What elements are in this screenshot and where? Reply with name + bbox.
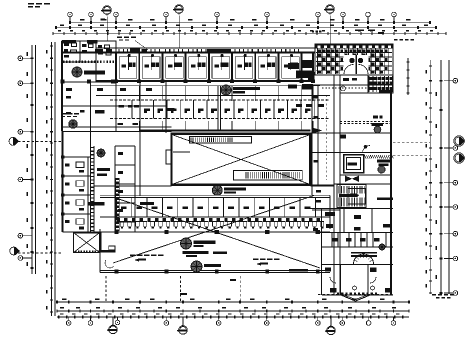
top dim text row1 (80, 19, 85, 21)
tree T7 with label (191, 261, 202, 272)
midleft outer wall (61, 41, 63, 131)
bottom dim text row3 (60, 313, 63, 314)
grid line stub left 2 (18, 252, 62, 254)
left rooms of band (115, 100, 117, 132)
east band join (329, 196, 331, 230)
section symbol S1 top (103, 6, 111, 14)
courtyard stair strip bottom (234, 171, 303, 180)
wc circle 2 (378, 166, 385, 173)
arch with ticks (354, 254, 374, 264)
module columns (114, 79, 118, 83)
right wing bottom interior (353, 286, 357, 290)
title text top-left (28, 3, 34, 5)
chapel bay (341, 295, 370, 301)
bottom grid bubbles (66, 321, 71, 326)
hall columns (114, 230, 118, 234)
bottom dim ticks row3 (58, 316, 59, 319)
right dim ticks B (440, 80, 443, 82)
top dimension line 3 (53, 33, 446, 35)
toilet door arcs (344, 55, 369, 75)
bottom dimension line 1 (57, 301, 409, 303)
cell band top line (110, 99, 330, 101)
left wall junction ticks (61, 155, 65, 158)
wing hatch band (365, 155, 367, 158)
east corridor lines (311, 85, 313, 196)
right dim text A (426, 70, 427, 73)
section symbol S2 bottom (179, 326, 187, 334)
patio X (74, 233, 100, 253)
bottom dimension line 2 (57, 310, 409, 312)
courtyard north thick wall (140, 130, 310, 132)
toilet block outline (315, 44, 393, 75)
top dim ticks row1 (69, 21, 71, 24)
toilet west wall (308, 72, 315, 81)
manhole circle (341, 86, 346, 91)
section symbol S1 bottom (109, 325, 117, 333)
black bar classroom (89, 202, 105, 206)
midleft grid verticals (90, 82, 92, 131)
east corridor dashed (325, 95, 327, 180)
grid verticals below modules (115, 86, 117, 101)
entry block outline (62, 41, 116, 82)
cell band bottom line (110, 118, 330, 120)
canopy bar (207, 49, 231, 52)
tree T4 with label (212, 185, 222, 195)
text area comedor 2 (253, 259, 259, 260)
east corridor thresholds (312, 132, 340, 134)
bottom dim ticks row1 (56, 301, 58, 304)
right dim line C (448, 60, 450, 294)
right wing lower marks (325, 212, 335, 216)
section symbol right 2 (455, 154, 463, 162)
courtyard inner line (173, 151, 190, 153)
right dim ticks A (429, 65, 432, 66)
section symbol left 1 (9, 137, 17, 145)
hall bottom wall (100, 269, 330, 271)
right wing outer wall (390, 93, 392, 295)
wing canopy dashed (318, 294, 393, 296)
grid line stub right 2 (393, 155, 430, 157)
left wing top hall (62, 156, 90, 158)
hall north line (100, 194, 330, 196)
right dim line A (430, 60, 432, 294)
room mark (379, 90, 392, 93)
grid stub bottom 3 (239, 276, 241, 302)
toilet block stalls (316, 45, 393, 49)
courtyard walls (172, 134, 311, 185)
module band main wall (62, 52, 315, 54)
dotted walk line (322, 87, 377, 89)
cubicle band bottom (100, 216, 330, 218)
entry hatch band (63, 60, 64, 63)
right wing top wall (340, 92, 391, 94)
section symbol S3 top (326, 5, 334, 13)
top dim text row2 (60, 24, 64, 26)
left dim line pair A (31, 45, 33, 274)
walkway dash (180, 293, 187, 295)
module wall hatch ticks (119, 49, 120, 52)
mid vertical wall (139, 131, 141, 196)
top dim ticks row3 (52, 32, 53, 35)
bottom room walls (340, 265, 342, 296)
patio square (74, 233, 100, 253)
bottom-right text (432, 294, 436, 296)
cubicle band cells (116, 198, 118, 218)
right grid bubbles (453, 78, 458, 83)
wing dashed lines (340, 121, 391, 123)
right dim text B (436, 92, 438, 96)
staircase (337, 185, 366, 208)
patio connector walls (100, 233, 102, 251)
bottom room fixtures (330, 288, 337, 293)
cell band dividers (139, 100, 141, 119)
east mid dividers (312, 209, 340, 211)
wc circle 3 (379, 244, 385, 250)
hatched band bottom line (100, 231, 330, 233)
hatched band cells (117, 218, 120, 222)
bottom wall columns (115, 269, 119, 273)
courtyard diagonal 2 (173, 135, 309, 184)
midleft room marks (97, 88, 103, 91)
grid line stub left 1 (18, 141, 62, 143)
upper right room marks (343, 78, 349, 81)
tree T6 with label (181, 238, 192, 249)
top dim text row3 (58, 30, 61, 31)
mid rooms column (115, 145, 135, 147)
entry block fixtures (64, 43, 69, 46)
grid line stub right 1 (393, 142, 430, 144)
module band top wall (96, 47, 315, 49)
grid stub bottom 1 (105, 276, 107, 302)
midleft grid horizontals (62, 105, 166, 107)
section symbol S3 bottom (327, 326, 335, 334)
wing cell row (331, 233, 333, 248)
courtyard stair strip top (190, 136, 252, 143)
bold text above entry (62, 40, 76, 43)
right edge text (394, 39, 398, 40)
north band right marks (296, 104, 302, 107)
wing table bars (351, 252, 377, 254)
left dim line pair B (51, 42, 53, 316)
left dim ticks B (50, 45, 53, 46)
module interiors (119, 57, 137, 79)
top grid bubbles (68, 12, 73, 17)
right edge mini dim chain (407, 58, 409, 95)
south walkway line (94, 185, 172, 187)
left corridor lines (89, 131, 91, 232)
elevator (344, 155, 364, 173)
section symbol right 1 (455, 137, 463, 145)
text area comedor 1 (130, 255, 136, 256)
module band lower line (90, 85, 320, 87)
corridor line y95 (96, 95, 330, 97)
left dim text B (46, 50, 47, 53)
tick cluster (312, 31, 314, 33)
bottom dim text row2 (60, 307, 64, 308)
left dim ticks A (31, 58, 34, 60)
wc circle 1 (374, 126, 381, 133)
module party walls (115, 53, 117, 82)
entry text block (61, 113, 66, 114)
grid stub bottom 2 (180, 276, 182, 302)
tree T5 (97, 149, 105, 157)
right dim line B (440, 60, 442, 294)
left wing rooms (63, 156, 91, 158)
toilet annex fixtures (368, 76, 370, 92)
toilet annex outline (368, 75, 393, 93)
courtyard diagonal 1 (173, 135, 309, 184)
annotation text (117, 37, 122, 39)
annotation text 2 (355, 30, 364, 32)
module band bottom wall (96, 80, 315, 82)
top dim ticks row2 (55, 26, 57, 29)
top dimension line 1 (70, 22, 430, 24)
left grid bubbles (18, 56, 23, 61)
east upper room lines (339, 75, 341, 93)
right wing dividers (340, 132, 391, 134)
kitchen dark mass (288, 63, 299, 69)
tree T1 with label (72, 67, 82, 77)
table bars (183, 251, 209, 254)
bottom dim ticks row2 (56, 310, 57, 313)
left wing bottom stub (63, 231, 101, 233)
bottom tick cluster (337, 293, 339, 295)
door bowtie (345, 176, 352, 183)
bottom wall dark bar (289, 269, 308, 272)
entry piers (61, 80, 65, 84)
grid double vertical (217, 86, 219, 131)
bottom dim text row1 (62, 298, 67, 300)
tree T3 with label (221, 85, 231, 95)
patio bottom hatch (75, 251, 77, 253)
elevator door arc (363, 146, 371, 154)
tree T2 with label (69, 120, 77, 128)
text leader line (135, 41, 148, 51)
big X diagonal 2 (116, 198, 320, 268)
annotation blob row (95, 49, 103, 52)
patio leader arc (105, 260, 114, 268)
left wing outer wall (62, 131, 64, 232)
section symbol S2 top (175, 5, 183, 13)
bottom dimension line 3 (57, 316, 409, 318)
cubicle band top (100, 197, 330, 199)
top dimension line 2 (56, 27, 436, 29)
entry block inner walls (79, 41, 81, 62)
hatched wall mid (115, 178, 120, 231)
courtyard left notch (166, 150, 172, 164)
big X diagonal 1 (113, 196, 314, 264)
left dim text A (27, 52, 29, 56)
extra bottom bubble (115, 320, 120, 325)
section symbol left 2 (10, 247, 18, 255)
classroom bars (97, 168, 110, 171)
